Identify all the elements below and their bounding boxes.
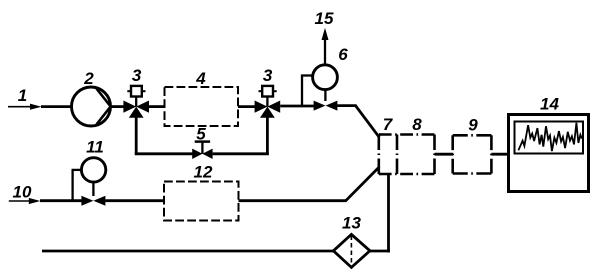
wire inlet 10 to valve 11	[40, 199, 83, 202]
svg-text:5: 5	[196, 125, 206, 144]
valve 3a (three-way valve with actuator)	[123, 86, 149, 118]
valve 6 (control valve with actuator circle)	[313, 65, 338, 111]
svg-text:13: 13	[342, 214, 361, 233]
node 1 inlet arrow	[8, 104, 42, 110]
wire bypass horizontal valve 5 to right	[213, 152, 269, 155]
wire valve 11 to box 12	[105, 199, 164, 202]
svg-text:9: 9	[468, 116, 478, 135]
wire actuator tap for valve 6	[301, 76, 313, 107]
svg-text:3: 3	[132, 66, 142, 85]
box 7 (dash-dot block)	[379, 135, 435, 175]
svg-text:1: 1	[18, 86, 27, 105]
wire valve 3a to box 4	[149, 105, 165, 108]
wire bypass left vertical from valve 3a	[135, 115, 138, 155]
svg-text:6: 6	[338, 45, 348, 64]
valve 11 (control valve with actuator circle)	[81, 158, 105, 206]
valve 5 (manual valve)	[192, 142, 212, 159]
wire inlet to pump 2	[41, 105, 73, 108]
wire pump 2 to valve 3a	[111, 105, 125, 108]
wire box 4 to valve 3b	[238, 105, 255, 108]
wire bottom line to filter 13	[42, 250, 335, 253]
svg-text:7: 7	[383, 115, 394, 134]
wire box 9 to recorder 14	[491, 153, 509, 156]
svg-text:15: 15	[315, 9, 334, 28]
svg-text:11: 11	[86, 138, 104, 157]
box 4 (dashed block)	[165, 87, 239, 126]
wire diagonal up to box 7	[345, 167, 379, 201]
wire box 8 to box 9	[435, 153, 454, 156]
svg-text:3: 3	[263, 66, 273, 85]
pump 2	[72, 87, 111, 126]
wire actuator tap for valve 11	[72, 170, 82, 201]
valve 3b (three-way valve with actuator)	[255, 86, 281, 118]
wire bypass horizontal left to valve 5	[135, 152, 193, 155]
svg-text:2: 2	[83, 69, 94, 88]
filter 13 (diamond)	[333, 234, 370, 267]
box 8 (dash-dot block)	[433, 135, 436, 175]
box 12 (dashed block)	[164, 182, 239, 221]
wire bypass right vertical to valve 3b	[266, 115, 269, 155]
wire riser to box 7	[387, 174, 390, 252]
svg-text:8: 8	[412, 115, 422, 134]
node 10 inlet arrow	[9, 198, 41, 204]
wire box 12 to diagonal	[239, 199, 347, 202]
svg-text:4: 4	[195, 69, 206, 88]
wire valve 3b to valve 6	[280, 105, 314, 108]
recorder 14 (display box with waveform)	[509, 115, 589, 192]
svg-text:14: 14	[540, 95, 559, 114]
wire diagonal down to box 7	[355, 105, 379, 137]
box 9 (dash-dot block)	[453, 135, 492, 173]
svg-text:12: 12	[194, 163, 213, 182]
wire valve 6 to diagonal	[337, 104, 356, 107]
wire filter 13 to riser	[370, 250, 390, 253]
node 15 vent arrow	[322, 28, 329, 65]
svg-text:10: 10	[13, 183, 32, 202]
